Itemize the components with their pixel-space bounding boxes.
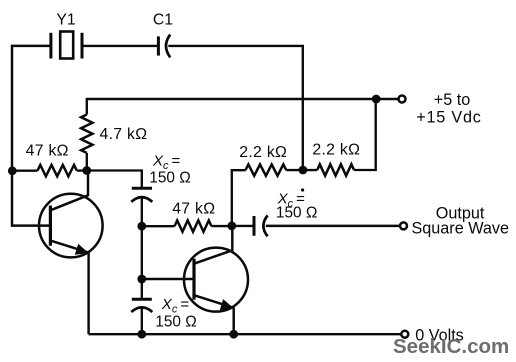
wire top rail to crystal [11, 45, 51, 47]
svg-text:2.2 kΩ: 2.2 kΩ [312, 141, 360, 158]
wire crystal to C1 [82, 45, 158, 47]
resistor R2 47 kOhm (left) [12, 165, 87, 176]
node dot left rail / 47k [8, 166, 17, 175]
svg-text:2.2 kΩ: 2.2 kΩ [239, 144, 287, 161]
svg-text:4.7 kΩ: 4.7 kΩ [100, 126, 148, 143]
node dot bottom rail / cap [137, 330, 146, 339]
wire left vertical (top rail to Q1 base) [11, 45, 13, 227]
wire between 2.2k resistors [286, 169, 317, 171]
node dot bottom rail / Q2 emitter [229, 330, 238, 339]
wire 2.2k right to +V junction [354, 99, 376, 170]
resistor R5 2.2 kOhm (right) [317, 164, 354, 175]
svg-text:+5 to: +5 to [434, 91, 470, 109]
capacitor Xc output (150 ohm) [232, 215, 400, 236]
resistor R3 47 kOhm (middle) [142, 220, 232, 231]
resistor R1 4.7 kOhm (vertical) [81, 98, 92, 170]
node dot 2.2k junction [299, 166, 308, 175]
terminal +V (open circle) [399, 96, 406, 103]
resistor R4 2.2 kOhm (left) [246, 164, 287, 175]
capacitor C1 [158, 35, 170, 58]
svg-text:Y1: Y1 [56, 11, 76, 28]
svg-text:150 Ω: 150 Ω [155, 314, 196, 331]
svg-text:150 Ω: 150 Ω [149, 170, 190, 187]
wire +V rail [87, 98, 399, 100]
transistor Q1 [12, 171, 103, 335]
node dot 47k / 4.7k junction [82, 166, 91, 175]
crystal Y1 [51, 32, 82, 59]
svg-text:47 kΩ: 47 kΩ [26, 142, 69, 159]
wire center column (cap to Q2 base junction) [141, 226, 143, 300]
svg-text:Square Wave: Square Wave [412, 220, 509, 238]
svg-text:SeekIC.com: SeekIC.com [393, 335, 509, 358]
wire C1 to top-right corner, down to 2.2k junction [168, 46, 302, 170]
svg-text:+15 Vdc: +15 Vdc [416, 108, 481, 126]
terminal Output (open circle) [400, 222, 407, 229]
dot above equals (output label) [301, 188, 304, 191]
node dot 47k middle / center column [137, 222, 146, 231]
node dot +V junction [372, 95, 381, 104]
svg-text:C1: C1 [153, 11, 173, 28]
svg-text:Xc =: Xc = [161, 296, 190, 316]
transistor Q2 [142, 226, 248, 334]
node dot collector Q2 / output [227, 222, 236, 231]
node dot Q2 base / center column [137, 275, 146, 284]
capacitor Xc top (150 ohm) [131, 188, 152, 227]
svg-text:47 kΩ: 47 kΩ [172, 201, 215, 218]
wire bottom rail [89, 333, 401, 335]
wire junction to center column [87, 171, 142, 188]
wire 2.2k left branch down to collector node [232, 170, 246, 226]
terminal 0 Volts (open circle) [401, 331, 408, 338]
capacitor Xc bottom (150 ohm) [131, 299, 152, 334]
svg-text:150 Ω: 150 Ω [276, 205, 317, 222]
